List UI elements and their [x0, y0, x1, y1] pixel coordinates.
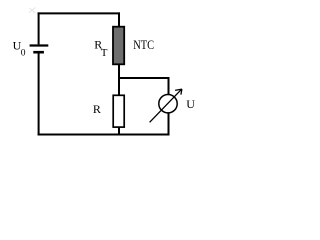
svg-text:NTC: NTC	[133, 38, 154, 52]
label RT	[94, 38, 108, 59]
svg-text:R: R	[93, 102, 101, 116]
wire voltmeter bottom to bottom wire	[168, 113, 170, 134]
wire left vertical upper (top corner to battery)	[38, 12, 40, 44]
svg-text:T: T	[101, 47, 108, 59]
thermistor RT (NTC, filled)	[113, 27, 124, 65]
wire vertical RT to R (with branch node)	[118, 65, 120, 96]
wire vertical into RT	[118, 12, 120, 27]
resistor R	[113, 95, 124, 127]
svg-text:0: 0	[21, 49, 26, 59]
faint print artifact	[29, 8, 36, 13]
wire top horizontal (source to RT branch)	[38, 12, 120, 14]
wire bottom horizontal	[38, 134, 170, 136]
label U0	[13, 39, 26, 59]
wire R bottom to bottom wire	[118, 127, 120, 134]
voltmeter needle arrow	[150, 89, 182, 122]
voltmeter U body	[159, 95, 177, 113]
voltage source U0 battery long plate	[30, 44, 49, 46]
wire branch vertical down to voltmeter	[168, 77, 170, 94]
voltage source U0 battery short plate	[33, 51, 44, 54]
svg-text:U: U	[186, 97, 195, 111]
wire left vertical lower (battery to bottom corner)	[38, 53, 40, 135]
wire branch horizontal to voltmeter	[118, 77, 170, 79]
